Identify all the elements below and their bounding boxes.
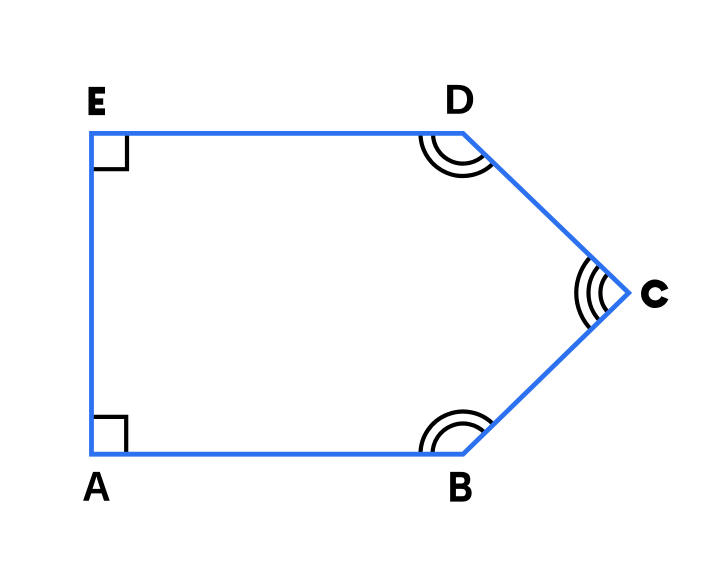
- label B: [451, 472, 472, 501]
- pentagon ABCDE outline: [92, 133, 629, 454]
- right angle mark at E: [92, 134, 128, 170]
- label C: [645, 283, 665, 304]
- angle arc at C (triple): [576, 257, 608, 330]
- angle arc at B (double): [421, 412, 494, 455]
- right angle mark at A: [92, 417, 127, 454]
- label A: [83, 472, 110, 501]
- angle arc at D (double): [421, 134, 494, 177]
- label D: [447, 85, 473, 114]
- label E: [89, 87, 106, 115]
